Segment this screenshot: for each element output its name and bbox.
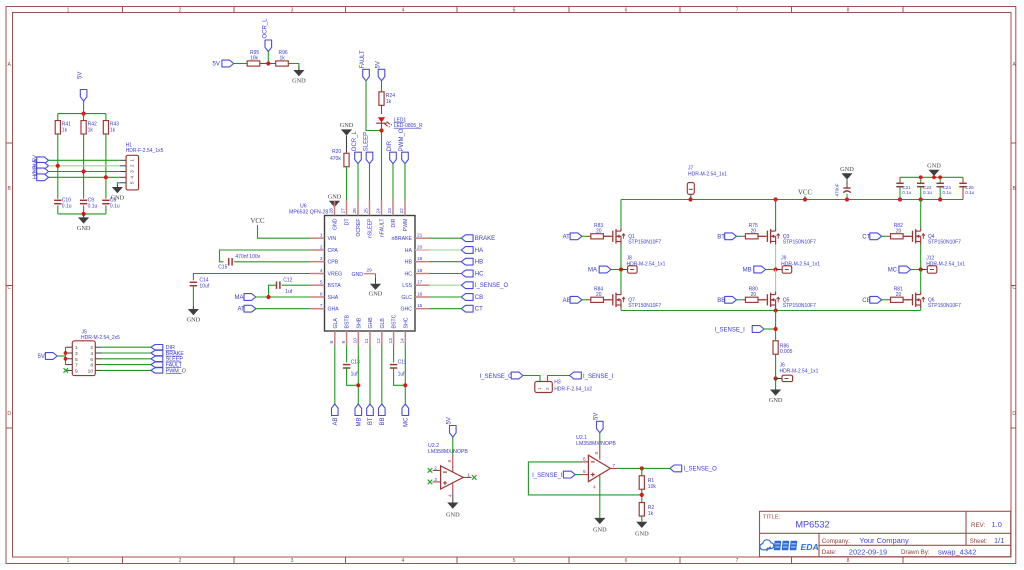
svg-text:MB: MB: [356, 418, 362, 427]
svg-text:5: 5: [320, 280, 323, 286]
svg-text:2022-09-19: 2022-09-19: [849, 547, 887, 556]
svg-text:2: 2: [90, 345, 93, 351]
svg-text:Company:: Company:: [822, 538, 850, 545]
svg-text:LM358MX/NOPB: LM358MX/NOPB: [576, 441, 616, 447]
port flag I_SENSE_O (output): [670, 465, 682, 472]
svg-text:CPA: CPA: [328, 248, 339, 254]
port flag I_SENSE_I (from H3): [570, 372, 582, 379]
port flag BRAKE: [151, 350, 163, 355]
wire feedback loop: [528, 462, 641, 495]
svg-text:HA: HA: [405, 248, 413, 254]
svg-text:MC: MC: [403, 417, 409, 427]
resistor R41: [55, 121, 60, 135]
svg-text:20: 20: [596, 229, 602, 235]
svg-text:1: 1: [130, 159, 136, 162]
svg-text:1.0: 1.0: [992, 520, 1002, 529]
wire pin to HB flag: [430, 261, 462, 263]
resistor R82: [891, 234, 904, 239]
port flag PWM_O: [151, 368, 163, 373]
svg-text:1k: 1k: [386, 99, 392, 105]
U6 pin 15 GHC: [415, 308, 430, 310]
resistor R96: [276, 61, 289, 66]
junction HA / R41: [56, 164, 60, 168]
connector H3 HDR-F-2.54_1x2: [535, 382, 553, 393]
svg-text:VIN: VIN: [328, 236, 337, 242]
capacitor C10: [54, 199, 61, 201]
resistor R24: [379, 92, 384, 106]
svg-text:VREG: VREG: [328, 272, 343, 278]
svg-text:10: 10: [353, 338, 359, 344]
svg-text:H3: H3: [554, 380, 561, 386]
svg-text:C: C: [7, 285, 11, 291]
port flag SLEEP: [151, 356, 163, 361]
svg-text:2: 2: [179, 558, 182, 564]
junction HB / R42: [82, 169, 86, 173]
U2.1 pin 6 inverting input: [581, 461, 588, 463]
svg-text:REV:: REV:: [971, 522, 985, 529]
svg-text:6: 6: [583, 456, 586, 462]
svg-text:21: 21: [417, 233, 423, 239]
resistor R83: [591, 234, 604, 239]
junction rail C22: [919, 197, 923, 201]
U6 pin 14 SHC: [404, 331, 406, 346]
wire AB to R84: [582, 299, 587, 301]
U6 pin 5 BSTA: [310, 284, 325, 286]
wire GLB down: [381, 346, 383, 405]
svg-text:GND: GND: [635, 530, 649, 537]
svg-text:OCR_L: OCR_L: [262, 18, 268, 39]
svg-text:HB: HB: [405, 260, 413, 266]
op-amp U2.2 triangle: [441, 466, 464, 489]
svg-text:DIR: DIR: [391, 218, 397, 227]
svg-text:CB: CB: [475, 295, 483, 301]
wire pin to CB flag: [430, 296, 462, 298]
wire BSTB to C13: [346, 346, 348, 363]
resistor R81: [891, 297, 904, 302]
svg-text:27: 27: [341, 208, 347, 214]
svg-text:I_SENSE_I: I_SENSE_I: [583, 374, 614, 380]
J5 pin 6 stub: [95, 358, 102, 360]
svg-text:0.005: 0.005: [780, 349, 793, 355]
resistor R84: [591, 297, 604, 302]
svg-text:GND: GND: [352, 272, 364, 278]
wire C13 to SHB: [347, 368, 359, 385]
port flag AB (bottom): [332, 404, 339, 416]
svg-text:Your Company: Your Company: [859, 536, 909, 545]
svg-text:1uf: 1uf: [398, 372, 406, 378]
svg-text:470nf 100v: 470nf 100v: [235, 254, 260, 260]
svg-text:1k: 1k: [280, 56, 286, 62]
capacitor C25 0.1u: [962, 177, 964, 183]
port flag BB (bottom): [379, 404, 386, 416]
svg-text:2: 2: [434, 465, 437, 471]
svg-text:10k: 10k: [250, 56, 259, 62]
ground shunt: [775, 388, 777, 391]
wire 5V to J5 bracket: [57, 355, 65, 357]
svg-text:BSTC: BSTC: [392, 314, 398, 328]
capacitor C8: [102, 199, 109, 201]
wire SHB down: [357, 346, 359, 405]
U6 pin 12 GLB: [381, 331, 383, 346]
svg-text:GND: GND: [927, 163, 941, 170]
resistor R86 shunt 0.005: [773, 341, 778, 355]
svg-text:D: D: [1012, 411, 1016, 417]
ground cap bank: [933, 176, 935, 177]
svg-text:5V: 5V: [78, 72, 84, 79]
svg-text:28: 28: [329, 208, 335, 214]
wire Q4 source to MC node: [920, 245, 922, 270]
svg-text:HC: HC: [475, 272, 484, 278]
svg-text:PWM_O: PWM_O: [399, 128, 405, 151]
wire R20 to DT pin: [346, 167, 348, 201]
wire R83 to gate: [603, 235, 610, 237]
svg-text:2: 2: [130, 164, 136, 167]
wire pull-up bus: [58, 113, 106, 115]
U6 pin 6 SHA: [310, 296, 325, 298]
U6 pin 28 GND: [334, 201, 336, 216]
wire CT to R82: [882, 235, 887, 237]
wire HB to H1 pin 3: [49, 171, 120, 173]
svg-text:AT: AT: [563, 234, 571, 240]
EasyEDA logo: [760, 540, 774, 550]
U6 pin 21 nBRAKE: [415, 237, 430, 239]
resistor R2 1k: [639, 503, 644, 517]
svg-text:10uf: 10uf: [199, 284, 209, 290]
svg-text:4: 4: [402, 7, 405, 13]
svg-text:AB: AB: [333, 418, 339, 426]
wire R96 to gnd: [288, 64, 299, 67]
wire I_SENSE_I to tap: [764, 328, 776, 330]
wire CB to R81: [882, 299, 887, 301]
junction MC: [919, 267, 923, 271]
wire SHC down: [404, 346, 406, 405]
capacitor C15 470nf: [228, 258, 230, 265]
junction FAULT/LED: [379, 128, 383, 132]
J5 pin 4 stub: [95, 352, 102, 354]
wire CPA loop: [220, 250, 311, 262]
wire Q1 source to MA node: [620, 245, 622, 270]
junction on 5V bus: [82, 112, 86, 116]
U2.1 pin 7 output: [610, 467, 618, 469]
svg-text:MA: MA: [588, 268, 597, 274]
wire pin to HC flag: [430, 273, 462, 275]
svg-text:20: 20: [896, 292, 902, 298]
wire R75 to gate: [758, 235, 765, 237]
svg-text:5V: 5V: [38, 354, 45, 360]
svg-text:4: 4: [593, 485, 596, 491]
H1 pin 5 stub: [120, 182, 126, 184]
svg-text:9: 9: [341, 341, 347, 344]
svg-text:STP150N10F7: STP150N10F7: [928, 303, 961, 309]
port flag PWM_O (top): [402, 152, 409, 164]
port flag DIR (top): [390, 152, 397, 164]
junction rail B drain: [774, 197, 778, 201]
ground hall caps: [83, 214, 85, 218]
svg-text:17: 17: [417, 280, 423, 286]
wire R82 to gate: [903, 235, 910, 237]
port flag DIR: [151, 345, 163, 350]
svg-text:GLA: GLA: [333, 318, 339, 329]
svg-text:1: 1: [467, 472, 470, 478]
port flag FAULT (top): [363, 69, 370, 81]
U2.2 pin 1 output: [463, 476, 471, 478]
svg-text:7: 7: [75, 363, 78, 369]
resistor R1 10k: [639, 476, 644, 490]
wire cap ground bus: [58, 213, 106, 215]
wire R42 top: [83, 114, 85, 121]
svg-text:10: 10: [88, 368, 94, 374]
svg-text:470uF: 470uF: [834, 183, 839, 196]
U6 pin 16 GLC: [415, 296, 430, 298]
svg-text:MP6532 QFN-28: MP6532 QFN-28: [289, 209, 328, 215]
junction J6: [774, 376, 778, 380]
wire MA to SHA: [256, 296, 310, 298]
U6 pin 27 DT: [346, 201, 348, 216]
svg-text:3: 3: [434, 477, 437, 483]
svg-text:8: 8: [847, 558, 850, 564]
U6 pin 7 GHA: [310, 308, 325, 310]
wire VCC to VIN: [258, 225, 311, 238]
svg-text:14: 14: [400, 338, 406, 344]
svg-text:I_SENSE_I: I_SENSE_I: [715, 328, 746, 334]
junction OCR_L node: [266, 61, 270, 65]
wire R84 to gate: [603, 299, 610, 301]
wire R24 to LED: [381, 105, 383, 114]
wire Q1 drain to rail: [620, 200, 622, 229]
wire MA flag: [611, 269, 621, 271]
wire BSTA to C12: [282, 284, 310, 286]
U6 pin 8 GLA: [334, 331, 336, 346]
wire HC to H1 pin 4: [49, 176, 120, 178]
svg-text:1: 1: [67, 7, 70, 13]
port flag 5V (U2.1): [597, 421, 604, 433]
H1 pin 3 stub: [120, 171, 126, 173]
svg-text:DT: DT: [345, 218, 351, 226]
port flag HB (IC right): [461, 258, 473, 265]
wire column B (R42 to C9): [83, 134, 85, 199]
svg-text:HDR-M-2.54_1x1: HDR-M-2.54_1x1: [688, 171, 727, 177]
svg-text:1: 1: [320, 233, 323, 239]
svg-text:GHB: GHB: [368, 317, 374, 329]
svg-text:3: 3: [320, 256, 323, 262]
no-connect J5 pin9: [64, 368, 69, 373]
U6 pin 11 GHB: [369, 331, 371, 346]
svg-text:0.1u: 0.1u: [62, 203, 72, 209]
port flag BRAKE (IC right): [461, 235, 473, 242]
wire C14 to gnd: [192, 286, 194, 306]
wire R80 to gate: [758, 299, 765, 301]
svg-text:29: 29: [367, 267, 373, 273]
wire MC flag: [911, 269, 921, 271]
svg-text:0.1u: 0.1u: [88, 203, 98, 209]
wire 5V to R95: [234, 63, 247, 65]
junction J5 pin3: [64, 351, 68, 355]
wire R41 top: [57, 114, 59, 121]
wire OCR_L flag: [267, 52, 269, 62]
svg-text:C: C: [1012, 285, 1016, 291]
svg-text:GHA: GHA: [328, 307, 340, 313]
wire R1 to R2: [641, 489, 643, 502]
svg-text:20: 20: [417, 244, 423, 250]
svg-text:10k: 10k: [648, 484, 657, 490]
wire pin to CT flag: [430, 308, 462, 310]
wire I_SENSE_I to pin5: [575, 474, 581, 476]
svg-text:5: 5: [513, 558, 516, 564]
svg-text:1/1: 1/1: [994, 536, 1004, 545]
svg-text:BT: BT: [368, 417, 374, 425]
svg-text:11: 11: [364, 338, 370, 343]
port flag 5V (LED supply): [378, 69, 385, 81]
svg-text:5: 5: [583, 469, 586, 475]
transistor Q6 STP150N10F7: [903, 299, 912, 301]
junction MB: [774, 267, 778, 271]
wire Q3 source to MB node: [775, 245, 777, 270]
wire C12 to MA junction: [269, 285, 277, 297]
svg-text:GND: GND: [840, 166, 854, 173]
wire HA to H1 pin 2: [49, 165, 120, 167]
svg-text:nSLEEP: nSLEEP: [368, 218, 374, 238]
wire I_SENSE_O to H3 pin1: [523, 376, 540, 382]
resistor R43: [103, 121, 108, 135]
svg-text:19: 19: [417, 256, 423, 262]
svg-text:C12: C12: [283, 278, 292, 284]
H1 pin 1 stub: [120, 159, 126, 161]
svg-text:I_SENSE_O: I_SENSE_O: [475, 283, 509, 289]
svg-text:I_SENSE_O: I_SENSE_O: [684, 467, 718, 473]
svg-text:3: 3: [75, 351, 78, 357]
ground C14: [192, 306, 194, 309]
junction cap bus: [82, 212, 86, 216]
svg-text:GND: GND: [333, 218, 339, 230]
svg-text:0.1u: 0.1u: [902, 190, 911, 195]
resistor R75: [745, 234, 758, 239]
svg-text:SLEEP: SLEEP: [363, 132, 369, 151]
ground R96: [298, 67, 300, 71]
junction VCC label: [803, 197, 807, 201]
svg-text:3: 3: [291, 558, 294, 564]
svg-text:0.1u: 0.1u: [923, 190, 932, 195]
wire 5V to H1 pin 1: [49, 159, 120, 161]
svg-text:5V: 5V: [375, 61, 381, 68]
svg-text:Drawn By:: Drawn By:: [901, 549, 930, 556]
port flag HC (IC right): [461, 270, 473, 277]
wire R2 to gnd: [641, 516, 643, 522]
wire MB node down: [775, 270, 777, 292]
capacitor C14 10uf: [190, 281, 197, 283]
transistor Q7 STP150N10F7: [603, 299, 612, 301]
port flag MC (bottom): [402, 404, 409, 416]
J5 pin 10 stub: [95, 369, 102, 371]
wire cap gnd rail: [900, 176, 963, 178]
junction C20/rail: [845, 197, 849, 201]
port flag CT (IC right): [461, 305, 473, 312]
svg-text:EDA: EDA: [801, 542, 819, 552]
junction feedback: [640, 493, 644, 497]
svg-text:GND: GND: [77, 225, 91, 232]
U6 pin 19 HB: [415, 261, 430, 263]
wire pin to HA flag: [430, 249, 462, 251]
wire pin to BRAKE flag: [430, 237, 462, 239]
capacitor C24 0.1u: [939, 177, 941, 183]
wire Q3 drain to rail: [775, 200, 777, 229]
wire R81 to gate: [903, 299, 910, 301]
svg-text:HC: HC: [405, 272, 413, 278]
svg-text:2: 2: [179, 7, 182, 13]
svg-text:9: 9: [75, 368, 78, 374]
wire low-side source rail: [621, 310, 921, 312]
svg-text:nFAULT: nFAULT: [380, 218, 386, 237]
wire AT to R83: [582, 235, 587, 237]
port flag 5V: [37, 157, 49, 164]
wire output to R1: [641, 468, 643, 476]
junction J5 pin5: [64, 357, 68, 361]
J5 pin 5 stub: [66, 358, 73, 360]
resistor R95: [247, 61, 260, 66]
svg-text:1k: 1k: [62, 127, 68, 133]
svg-text:1uf: 1uf: [351, 372, 359, 378]
wire 5V to U2.1 pin8: [599, 433, 601, 445]
svg-text:8: 8: [847, 7, 850, 13]
J5 pin 7 stub: [66, 364, 73, 366]
svg-text:6: 6: [320, 291, 323, 297]
svg-text:5V: 5V: [447, 417, 453, 424]
wire MA node down: [620, 270, 622, 292]
transistor Q4 STP150N10F7: [903, 235, 912, 237]
svg-text:VCC: VCC: [251, 218, 265, 225]
LED LED1 LED-0805_R: [378, 117, 385, 122]
svg-text:1k: 1k: [648, 511, 654, 517]
svg-text:HDR-M-2.54_1x1: HDR-M-2.54_1x1: [780, 368, 819, 374]
U6 pin 24 nFAULT: [381, 201, 383, 216]
capacitor C11 1uf: [390, 364, 397, 366]
svg-text:AB: AB: [563, 298, 571, 304]
capacitor C12 1uf: [276, 282, 278, 289]
wire C8 bottom: [105, 205, 107, 214]
svg-text:26: 26: [352, 208, 358, 214]
svg-text:GLB: GLB: [380, 318, 386, 329]
svg-text:16: 16: [417, 291, 423, 297]
wire Q5 source to sense rail: [775, 308, 777, 311]
J5 pin 3 stub: [66, 352, 73, 354]
svg-text:GND: GND: [593, 527, 607, 534]
svg-text:3: 3: [291, 7, 294, 13]
svg-text:5: 5: [75, 357, 78, 363]
svg-text:GND: GND: [769, 397, 783, 404]
svg-text:1: 1: [67, 558, 70, 564]
svg-text:STP150N10F7: STP150N10F7: [628, 240, 661, 246]
svg-text:1: 1: [75, 345, 78, 351]
wire FAULT down: [366, 81, 382, 131]
svg-text:12: 12: [376, 338, 382, 344]
U6 pin 23 DIR: [392, 201, 394, 216]
port flag OCR_L (top): [265, 40, 272, 52]
U6 pin 10 SHB: [357, 331, 359, 346]
port flag BT (bottom): [367, 404, 374, 416]
U6 pin 17 LSS: [415, 284, 430, 286]
ground C20: [841, 173, 852, 179]
svg-text:swap_4342: swap_4342: [938, 547, 976, 556]
svg-text:OCR_L: OCR_L: [352, 131, 358, 152]
wire C9 bottom: [83, 205, 85, 214]
svg-text:STP150N10F7: STP150N10F7: [783, 240, 816, 246]
port flag HA: [37, 162, 49, 169]
svg-text:15: 15: [417, 303, 423, 309]
port flag I_SENSE_O (IC right): [461, 282, 473, 289]
port flag FAULT: [151, 362, 163, 367]
svg-text:LSS: LSS: [402, 283, 412, 289]
junction C22 top: [919, 175, 923, 179]
svg-text:8: 8: [447, 460, 453, 463]
